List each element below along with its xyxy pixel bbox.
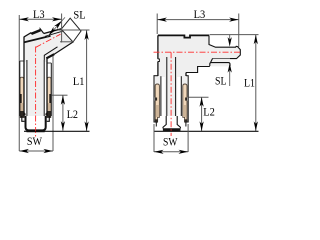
L2 extension line (right fig) bbox=[188, 96, 208, 98]
sleeve bottom lips (right fig) bbox=[155, 122, 157, 127]
L3 left extension line bbox=[156, 14, 158, 35]
L3 right extension line bbox=[238, 14, 240, 48]
svg-text:SL: SL bbox=[73, 9, 85, 21]
L2 extension line bbox=[52, 94, 68, 96]
right step + stem outline bbox=[209, 35, 240, 58]
collet bottom cup walls (right fig) bbox=[163, 116, 166, 128]
notch bbox=[40, 29, 44, 34]
hex lower edge (thick) bbox=[46, 54, 54, 58]
arm inner lower line bbox=[44, 47, 57, 60]
sleeve bore white strips (right fig) bbox=[161, 77, 164, 116]
collar rounded bbox=[210, 59, 230, 66]
SL dimension (left fig): line along stem axis with outside arrows bbox=[47, 17, 65, 37]
extension line left (L3/SW shared) bbox=[18, 15, 20, 151]
collet bottom cup (right fig) interior bbox=[163, 116, 180, 128]
svg-text:L3: L3 bbox=[194, 9, 206, 21]
grip lower shading (right fig) bbox=[183, 105, 187, 117]
tan slit right (right fig) bbox=[187, 97, 189, 100]
tan grip column right (right fig) bbox=[183, 84, 187, 122]
cup thick walls bbox=[26, 116, 46, 130]
sleeve outer outlines (right fig) bbox=[154, 76, 158, 122]
tan bottom dark left (right fig) bbox=[155, 119, 158, 122]
left edge of body bbox=[157, 35, 159, 76]
tube outer black lines bbox=[23, 37, 25, 117]
svg-text:SW: SW bbox=[27, 136, 42, 148]
red centerline vertical (left fig) bbox=[35, 47, 37, 138]
L3 right extension line over square bbox=[61, 14, 63, 43]
cup thick bottom band bbox=[27, 130, 45, 132]
L1 dimension line bbox=[86, 30, 88, 131]
bottom profile of horizontal arm bbox=[186, 67, 210, 73]
arm inner upper diagonal (thick) bbox=[24, 36, 50, 42]
collar fill bbox=[210, 59, 230, 67]
stem tip tilted square bbox=[61, 18, 81, 42]
collet bottom cup outline steps bbox=[22, 116, 25, 121]
L1 dimension line (right fig) bbox=[255, 35, 257, 131]
SW extension lines (right fig) bbox=[153, 124, 155, 152]
svg-text:SL: SL bbox=[215, 76, 227, 88]
inner bore lines vertical arm bbox=[166, 57, 168, 116]
body outline top edge (thick) bbox=[158, 35, 209, 37]
parting nick on left edge bbox=[157, 59, 159, 62]
svg-text:L3: L3 bbox=[33, 9, 45, 21]
svg-text:L1: L1 bbox=[244, 77, 255, 89]
SW right extension line bbox=[52, 55, 54, 151]
baseline under left figure bbox=[24, 130, 90, 132]
grip inner dark slots bbox=[20, 94, 22, 111]
SW dimension line (right fig) bbox=[154, 151, 188, 153]
svg-text:SW: SW bbox=[163, 136, 178, 148]
body fill: vertical tube + sleeve bbox=[20, 60, 51, 116]
cup inner white bbox=[27, 116, 45, 129]
L3 dimension line bbox=[157, 19, 239, 21]
tan bottom dark right (right fig) bbox=[184, 119, 187, 122]
sleeve top step lines bbox=[20, 60, 24, 62]
grip lower shading bbox=[20, 103, 24, 112]
tan grip column left (right fig) bbox=[155, 84, 159, 122]
grip dark feet bbox=[20, 111, 26, 118]
sleeve outer outlines bbox=[19, 61, 21, 116]
tan slit left (right fig) bbox=[154, 97, 156, 100]
cup thick bottom band (right fig) bbox=[163, 128, 181, 131]
SW dimension line bbox=[19, 150, 53, 152]
svg-text:L2: L2 bbox=[203, 106, 215, 118]
right edge of vertical arm bbox=[185, 73, 187, 77]
SL arrows (right fig) bbox=[228, 37, 232, 47]
sleeve inner wall lines (right fig) bbox=[160, 76, 162, 116]
arm lower edge bbox=[54, 42, 73, 55]
tan grip column left bbox=[20, 77, 24, 112]
grip lower shading (right fig) bbox=[156, 105, 160, 117]
red centerline horizontal (right fig) bbox=[154, 51, 241, 53]
ext line from tip lower corner bbox=[60, 41, 74, 43]
L2 dimension line (right fig) bbox=[201, 97, 203, 131]
red centerline vertical (right fig) bbox=[170, 52, 172, 136]
red centerline arm axis bbox=[36, 34, 61, 47]
thick upper edge bbox=[31, 30, 40, 34]
L3 dimension line bbox=[19, 18, 61, 20]
svg-text:L1: L1 bbox=[73, 76, 85, 88]
baseline under right figure bbox=[155, 130, 259, 132]
body fill: L-shape bbox=[154, 35, 240, 116]
tube inner bore lines bbox=[26, 60, 28, 116]
L1 top extension line bbox=[58, 29, 90, 31]
elbow arm outline: upper profile bbox=[24, 33, 31, 37]
tan grip column right bbox=[47, 77, 51, 112]
svg-text:L2: L2 bbox=[67, 109, 79, 121]
L1 top extension line (right fig) bbox=[210, 34, 259, 36]
L2 dimension line bbox=[62, 95, 64, 131]
double taper lines to step bbox=[44, 29, 61, 34]
collet bottom cup fill bbox=[22, 116, 50, 131]
elbow arm fill bbox=[25, 29, 74, 62]
